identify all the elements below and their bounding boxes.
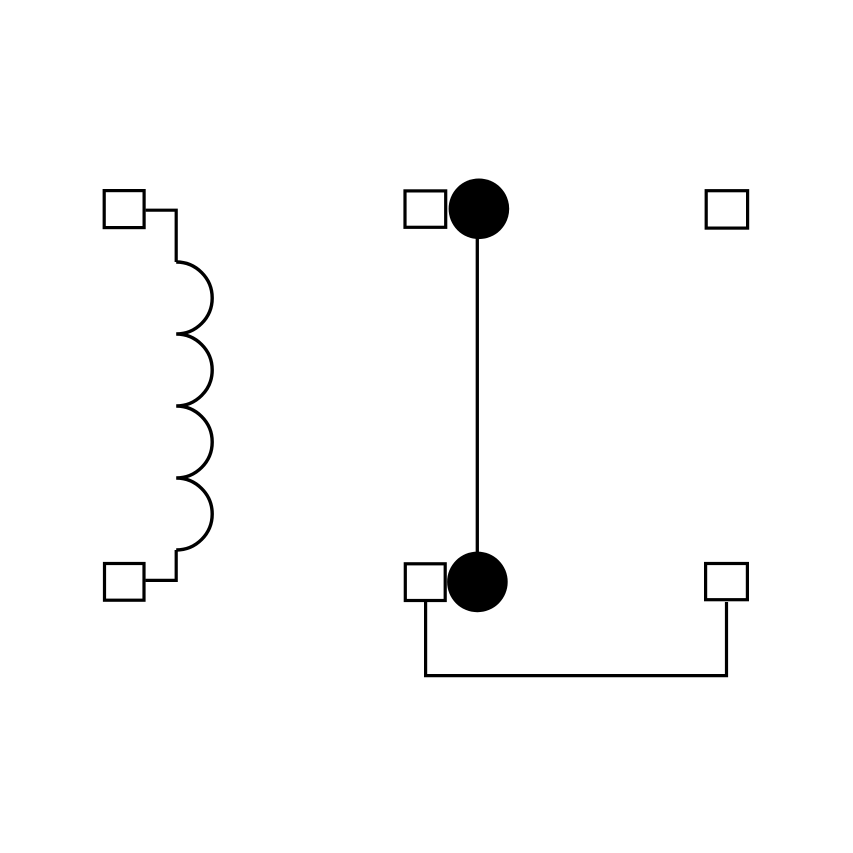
pin 5 (top-right square, unconnected): [706, 191, 747, 228]
contact dot top (node): [449, 179, 510, 240]
pin 3 (common, top-middle square): [405, 191, 446, 227]
switch blade wire (vertical line between contacts): [476, 209, 479, 582]
inductor L1 (relay coil, 4 arcs): [176, 262, 212, 550]
pin 4 (normally-open contact, bottom-middle square): [405, 564, 445, 601]
wire coil bottom to pin 2: [146, 550, 177, 580]
wire pin1 to coil top: [146, 210, 177, 262]
contact dot bottom (node): [447, 552, 508, 613]
pin 1 (coil terminal, top-left square): [104, 191, 144, 228]
pin 6 (bottom-right square): [706, 564, 748, 600]
pin 2 (coil terminal, bottom-left square): [105, 564, 145, 601]
jumper wire pin4 to pin6: [426, 601, 727, 676]
